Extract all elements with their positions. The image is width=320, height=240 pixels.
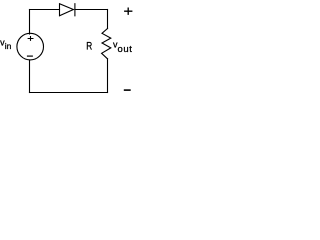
svg-text:R: R: [86, 41, 92, 53]
wire right vertical above resistor: [107, 10, 109, 29]
source minus sign: [27, 55, 33, 57]
wire right vertical below resistor: [107, 59, 109, 93]
source plus sign: [28, 36, 34, 41]
wire top-left vertical: [29, 10, 31, 35]
svg-text:out: out: [118, 44, 133, 55]
wire diode cathode to top-right corner: [75, 9, 108, 11]
plus polarity label top right: [124, 8, 132, 15]
wire top horizontal to diode anode: [30, 9, 60, 11]
wire bottom-left vertical: [29, 60, 31, 93]
diode D1 cathode bar: [74, 4, 76, 16]
label R: [86, 41, 92, 53]
minus polarity label bottom right: [124, 89, 131, 91]
resistor R zigzag: [102, 29, 111, 59]
wire bottom horizontal: [30, 92, 108, 94]
svg-text:in: in: [5, 41, 12, 51]
voltage source vin circle: [17, 33, 44, 60]
diode D1 triangle: [60, 4, 74, 16]
